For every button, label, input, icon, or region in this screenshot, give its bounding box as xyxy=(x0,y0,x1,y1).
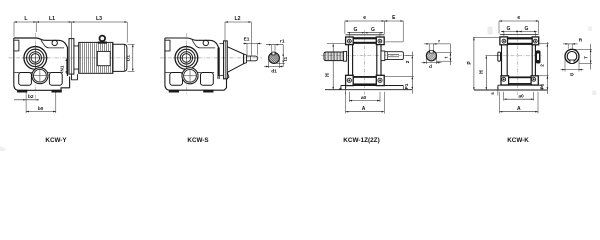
e dimension xyxy=(345,20,385,22)
left side lug xyxy=(498,52,501,61)
svg-text:t1: t1 xyxy=(283,57,289,62)
svg-text:L: L xyxy=(24,16,28,22)
right foot pad 2 xyxy=(201,73,214,86)
cone lower strut to base xyxy=(227,72,229,78)
extension line circle center xyxy=(35,22,37,32)
base / feet of housing xyxy=(14,77,70,91)
flange-body link top xyxy=(220,43,224,45)
bottom flange bar lines xyxy=(353,76,376,77)
svg-text:d1: d1 xyxy=(271,68,277,74)
right foot pad xyxy=(49,73,62,86)
d1 dimension xyxy=(268,59,270,68)
shaft section detail r/t/d xyxy=(426,51,436,61)
top plate right block 4 xyxy=(532,37,539,45)
gearbox housing outline xyxy=(14,38,68,76)
a0 dimension xyxy=(348,92,350,102)
svg-text:A: A xyxy=(517,106,521,112)
svg-text:r1: r1 xyxy=(280,39,285,45)
s dimension 4 xyxy=(497,90,499,96)
bottom flange left block 4 xyxy=(501,76,509,85)
svg-text:s: s xyxy=(338,87,343,90)
svg-text:s: s xyxy=(490,92,495,95)
r1 dimension xyxy=(271,45,273,52)
svg-text:L1: L1 xyxy=(49,16,55,22)
scan smudge bottom left xyxy=(0,146,6,151)
motor foot under flange xyxy=(72,74,78,80)
svg-text:P1: P1 xyxy=(539,83,544,89)
d dimension xyxy=(425,57,427,64)
bottom flange left block xyxy=(346,75,354,85)
base top line xyxy=(14,72,63,74)
svg-text:E: E xyxy=(392,15,396,21)
top bolt holes 4 xyxy=(502,39,506,43)
cowl joint line xyxy=(112,42,114,73)
svg-text:b2: b2 xyxy=(28,94,34,100)
svg-text:b0: b0 xyxy=(38,106,44,112)
keyway notch top xyxy=(272,52,275,55)
t dimension xyxy=(449,44,451,65)
KCW-K gearbox front view xyxy=(467,15,592,114)
svg-text:D1: D1 xyxy=(126,55,131,61)
extension line body left xyxy=(13,22,15,37)
svg-text:D: D xyxy=(570,72,574,78)
E1 dimension xyxy=(246,44,248,56)
KCW-1Z(2Z) gearbox front view xyxy=(321,15,452,114)
A dimension xyxy=(345,92,347,114)
bottom circle crosshair xyxy=(34,75,47,77)
svg-text:R: R xyxy=(579,38,583,44)
s dimension xyxy=(345,80,347,95)
output bore circles 2 xyxy=(175,47,198,70)
P0 dimension 4 xyxy=(539,43,549,45)
svg-text:G: G xyxy=(354,27,358,33)
H dimension xyxy=(327,43,346,45)
centerline horizontal 3 xyxy=(321,55,410,57)
svg-text:KCW-1Z(2Z): KCW-1Z(2Z) xyxy=(343,137,379,144)
input shaft xyxy=(247,56,258,61)
shaft shoulder xyxy=(249,56,251,61)
svg-text:KCW-K: KCW-K xyxy=(507,137,529,144)
bottom flange right block xyxy=(376,75,384,85)
svg-text:r: r xyxy=(438,39,440,45)
base of housing 2 xyxy=(165,79,227,90)
KCW-S gearbox with input adapter xyxy=(160,16,289,95)
svg-text:G: G xyxy=(525,26,529,32)
bottom foot tabs 2 xyxy=(169,90,178,92)
body columns 4 xyxy=(501,45,503,76)
top plate left block 4 xyxy=(500,37,508,45)
ear inner line 2 xyxy=(192,40,215,48)
bottom bolt holes xyxy=(347,78,351,82)
motor flange plate xyxy=(69,39,74,75)
right bottom foot tab xyxy=(52,90,62,92)
KCW-Y gearmotor view xyxy=(9,16,135,113)
bottom output circle xyxy=(32,68,48,84)
G G dimensions xyxy=(347,32,383,34)
bottom output circle 2 xyxy=(182,68,198,84)
left bottom foot tab xyxy=(18,90,27,92)
left foot pad xyxy=(19,73,32,86)
top cover line xyxy=(346,34,385,36)
svg-text:T: T xyxy=(583,56,588,59)
lug hole in ear xyxy=(52,40,57,45)
base sides xyxy=(340,86,342,90)
cone hub face xyxy=(243,54,245,64)
eyebolt ring xyxy=(100,36,106,42)
P0 dimension right xyxy=(405,55,414,57)
svg-text:L3: L3 xyxy=(96,16,102,22)
motor nameplate xyxy=(97,51,110,65)
svg-text:t: t xyxy=(444,56,449,58)
eyebolt base xyxy=(98,42,107,43)
b0 dimension xyxy=(26,111,56,113)
input cone xyxy=(227,47,243,73)
svg-text:e: e xyxy=(517,15,520,21)
keyway slot bottom xyxy=(570,60,574,63)
top plate right block xyxy=(376,37,384,45)
N1 dimension xyxy=(65,59,67,75)
svg-text:P1: P1 xyxy=(404,83,409,89)
E dimension xyxy=(384,20,403,22)
G G dimensions 4 xyxy=(501,31,537,33)
right output shaft xyxy=(385,52,404,60)
motor cooling fins xyxy=(80,43,110,72)
svg-text:A: A xyxy=(362,106,366,112)
cowl inner line xyxy=(124,45,126,72)
bottom bolt holes 4 xyxy=(502,77,506,81)
base plate 4 xyxy=(498,84,542,86)
svg-text:H: H xyxy=(325,73,331,77)
a0 dimension 4 xyxy=(503,92,505,101)
right shaft boss xyxy=(381,51,385,61)
D1 dimension xyxy=(128,43,135,45)
base bottom long line 4 xyxy=(474,89,548,91)
svg-text:2: 2 xyxy=(405,60,410,63)
housing left edge xyxy=(13,38,15,84)
svg-text:KCW-Y: KCW-Y xyxy=(45,137,67,144)
svg-text:a0: a0 xyxy=(518,94,524,100)
svg-text:H: H xyxy=(479,70,485,74)
centerline horizontal xyxy=(160,57,262,59)
r dimension xyxy=(428,44,430,51)
flange neck xyxy=(74,46,79,69)
right side lug xyxy=(536,51,540,63)
ear inner line xyxy=(41,40,64,48)
svg-text:a0: a0 xyxy=(361,95,367,101)
top plate left block xyxy=(346,37,354,45)
bottom flange bars 4 xyxy=(509,77,531,78)
b2 dimension xyxy=(25,92,27,113)
top cover line 4 xyxy=(500,34,539,36)
centerline horizontal 4 xyxy=(495,55,542,57)
L2 dimension xyxy=(225,21,251,23)
right shaft lines xyxy=(388,53,399,55)
A dimension 4 xyxy=(499,92,501,114)
fan cowl xyxy=(113,44,127,71)
gearbox housing outline 2 xyxy=(165,38,219,76)
svg-text:2: 2 xyxy=(540,64,545,67)
svg-text:N1: N1 xyxy=(59,65,65,71)
centerline vertical through output circles xyxy=(35,33,37,101)
P dimension xyxy=(473,36,500,38)
body columns xyxy=(347,45,349,76)
left input shaft hatched xyxy=(324,52,346,61)
base plate xyxy=(341,85,403,87)
T dimension xyxy=(573,48,592,50)
centerline horizontal through output axis xyxy=(9,57,134,59)
svg-text:KCW-S: KCW-S xyxy=(187,137,208,144)
crosshair 2 xyxy=(174,57,200,59)
svg-text:G: G xyxy=(371,27,375,33)
hollow shaft section detail R/T/D xyxy=(565,49,579,63)
bottom flange right block 4 xyxy=(531,76,538,85)
extension line flange face xyxy=(71,22,73,38)
extension line fan cowl end xyxy=(126,22,128,43)
crosshair in bore xyxy=(23,57,49,59)
svg-text:L2: L2 xyxy=(234,16,240,22)
svg-text:E1: E1 xyxy=(244,36,250,42)
left plug boss xyxy=(14,40,19,51)
left plug boss 2 xyxy=(165,40,170,51)
top plate bar 4 xyxy=(508,37,533,39)
svg-text:d: d xyxy=(429,64,432,70)
body right edge 2 xyxy=(217,48,219,79)
top bolt holes xyxy=(348,39,352,43)
centerline vertical 3 xyxy=(364,30,366,95)
E bent extension xyxy=(385,41,403,43)
e dimension 4 xyxy=(499,20,539,22)
centerline vertical xyxy=(186,33,188,95)
scan smudge near drawing 4 top xyxy=(488,27,493,35)
D dimension xyxy=(564,59,566,72)
R dimension xyxy=(567,44,569,49)
svg-text:G: G xyxy=(507,26,511,32)
left foot pad 2 xyxy=(170,73,183,86)
input flange plate xyxy=(224,41,228,79)
dimension chain L / L1 / L3 xyxy=(14,21,127,23)
base bottom long line xyxy=(325,89,413,91)
motor stator body xyxy=(79,42,113,73)
left shaft bearing boss xyxy=(344,51,347,61)
top plate bar xyxy=(353,37,376,39)
output bore circles xyxy=(24,47,47,70)
lug hole 2 xyxy=(203,40,208,45)
svg-text:P: P xyxy=(467,61,473,65)
svg-text:e: e xyxy=(363,15,366,21)
H dimension 4 xyxy=(486,55,501,57)
t1 dimension xyxy=(282,45,284,67)
centerline vertical 4 xyxy=(517,30,519,95)
